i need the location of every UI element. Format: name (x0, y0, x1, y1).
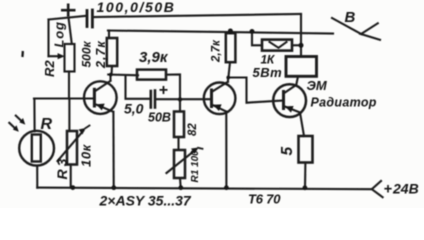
T2 emitter line with arrow (212, 105, 227, 112)
svg-text:50В: 50В (148, 111, 171, 125)
R1 adjustment arrow (167, 150, 197, 174)
svg-text:2×ASY 35...37: 2×ASY 35...37 (99, 192, 192, 208)
resistor 2,7k (first) body (107, 38, 117, 66)
photoresistor R circle (19, 131, 54, 166)
R2 wiper arrow (49, 55, 58, 57)
relay coil EM box (286, 57, 317, 77)
wire drop from collector node to coupling cap (126, 75, 150, 99)
junction dot 2,7k second top (228, 29, 233, 34)
junction dot rail resistor 5 (303, 185, 308, 190)
light arrow 2 (16, 116, 22, 122)
resistor 3,9k body (137, 70, 166, 80)
svg-text:R3: R3 (54, 156, 70, 180)
svg-text:2,7к: 2,7к (211, 39, 223, 63)
T1 emitter line with arrow (94, 104, 113, 112)
T2 collector line (212, 82, 228, 92)
wire R3 top (68, 99, 70, 132)
T3 base bar (282, 92, 285, 109)
potentiometer R1 100 body (174, 150, 185, 178)
capacitor C1 100,0/50V plates (86, 11, 89, 27)
wire T2 collector node to T3 base (228, 78, 283, 103)
junction dot T2 collector node (226, 76, 230, 80)
svg-text:500к: 500к (80, 40, 94, 67)
switch B connector chevron (361, 23, 380, 40)
wire T1 collector stub (109, 75, 111, 81)
transistor T3 circle (273, 84, 306, 117)
wire 2,7k second bottom (228, 62, 230, 77)
potentiometer R3 body 10k (67, 131, 77, 165)
wire top rail left segment (49, 16, 87, 20)
wire right vertical drop from rail to relay box (300, 14, 302, 57)
potentiometer R2 body 500k (65, 44, 75, 72)
svg-text:2,7к: 2,7к (94, 40, 108, 69)
svg-text:5: 5 (279, 147, 296, 156)
photoresistor inner body (32, 135, 41, 162)
wire photoresistor top (33, 99, 35, 132)
label + of C1 (61, 4, 76, 18)
T1 base bar (93, 89, 96, 106)
T2 base bar (210, 90, 213, 107)
+24V connector chevron (372, 181, 383, 197)
svg-text:Радиатор: Радиатор (311, 96, 377, 110)
wire T1 emitter down to rail (112, 112, 114, 188)
wire R3 bottom to rail (70, 165, 72, 188)
junction dot rail T2 emitter (224, 185, 229, 190)
wire 3,9k right terminal down to base node (166, 75, 180, 112)
wire 2,7k bottom to collector node (110, 66, 113, 75)
svg-text:5Вт: 5Вт (253, 65, 283, 80)
wire collector node horizontal to 3,9k left (108, 73, 138, 76)
T3 emitter line with arrow (284, 106, 301, 113)
junction dot 1K right (299, 43, 304, 48)
T1 collector line (94, 81, 110, 92)
wire 2,7k top stub from second line (108, 31, 110, 39)
wire base line T1 (34, 97, 94, 99)
wire cap to T2 base (156, 98, 211, 100)
svg-text:100,0/50В: 100,0/50В (97, 0, 176, 15)
wire Log box left edge (rail down to wiper) (47, 20, 49, 57)
wire R2 bottom to base line (68, 72, 70, 99)
wire T3 emitter to resistor 5 (300, 113, 304, 137)
junction dot base node T2 (178, 97, 182, 101)
transistor T2 circle (204, 83, 236, 115)
wire 82 to R1 (177, 137, 179, 150)
svg-text:5,0: 5,0 (124, 101, 144, 117)
junction dot rail R1 (178, 185, 183, 190)
svg-text:+: + (384, 182, 393, 198)
wire resistor 5 bottom to rail (304, 163, 306, 188)
svg-text:Log: Log (52, 21, 67, 47)
svg-text:3,9к: 3,9к (139, 49, 169, 66)
wire second line (base bias line to switch) (108, 31, 333, 34)
svg-text:R2: R2 (42, 60, 57, 77)
ink speck (21, 51, 24, 57)
switch B lever (332, 18, 362, 34)
junction dot rail T1 emitter (111, 185, 116, 190)
svg-text:Т6 70: Т6 70 (248, 192, 281, 207)
resistor 1K 5W body (262, 40, 292, 51)
svg-text:ЭМ: ЭМ (307, 78, 328, 93)
wire photoresistor bottom (36, 166, 38, 188)
svg-text:+: + (159, 82, 168, 99)
wire relay box bottom to T3 collector (296, 76, 298, 84)
wire 1K left drop from second line (252, 32, 262, 46)
wire R1 bottom to rail (179, 178, 182, 188)
resistor 82 body (174, 112, 184, 138)
light arrow 1 (9, 123, 16, 129)
wire bottom rail (37, 188, 372, 190)
svg-text:24В: 24В (392, 181, 419, 197)
junction dot rail R3 (70, 185, 75, 190)
T3 collector line (284, 85, 297, 94)
wire 1K right to vertical (292, 44, 301, 46)
transistor T1 circle (84, 81, 117, 114)
wire 2,7k second top stub (229, 31, 231, 33)
wire T2 emitter down to rail (225, 112, 227, 188)
resistor 2,7k (second) body (226, 33, 236, 62)
R3 adjustment arrow (58, 131, 84, 162)
1K 5W power mark (V) (270, 42, 287, 48)
wire R2 top terminal to rail (Log box right edge) (69, 18, 72, 45)
svg-text:R: R (41, 116, 53, 133)
junction dot collector node T1 (109, 73, 113, 77)
capacitor C2 5,0/50V plates (150, 91, 153, 108)
svg-text:R1 100: R1 100 (190, 150, 201, 183)
svg-text:10к: 10к (79, 143, 94, 167)
svg-text:В: В (345, 9, 356, 26)
resistor 5 body (299, 136, 313, 163)
junction dot 1K left (250, 29, 255, 34)
svg-text:82: 82 (187, 123, 199, 136)
wire top rail right segment (94, 14, 301, 17)
wire T2 collector stub (227, 78, 229, 82)
